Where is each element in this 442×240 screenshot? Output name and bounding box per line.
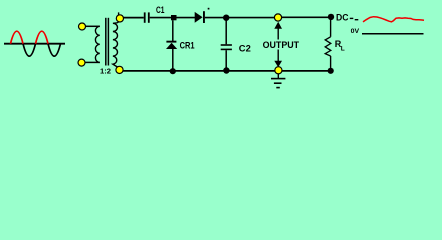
svg-text:C1: C1 [156,5,165,15]
wire RL to bottom rail [330,56,332,70]
wire C2 drop from node B [225,21,227,45]
svg-text:CR1: CR1 [180,40,195,50]
input AC waveform negative half-cycle 1 (black) [23,44,36,56]
transformer T secondary bottom node (yellow) [116,66,123,73]
wire CR1 to bottom rail [172,49,174,71]
input AC waveform axis line [4,43,65,45]
junction dot RL bottom [328,68,334,74]
DC output ripple waveform (red) [363,17,424,22]
svg-text:DC: DC [336,13,349,24]
capacitor C2 bottom plate [221,48,232,50]
ground bar 2 [274,82,282,84]
ground bar 1 [271,78,285,80]
junction node C (dot, DC output) [328,14,334,20]
svg-text:L: L [341,45,345,52]
wire RL drop from node C [330,20,332,37]
0V reference line [362,33,424,35]
wire C2 to bottom rail [225,50,227,70]
OUTPUT node top (yellow) [274,14,281,21]
svg-text:0V: 0V [351,28,360,35]
OUTPUT up arrowhead [274,22,282,29]
bottom rail wire [123,70,331,72]
diode CR2 triangle (series rectifier) [195,12,203,23]
capacitor C2 top plate [221,44,232,46]
DC level dash 1 [350,17,354,19]
transformer T secondary winding [113,12,119,67]
svg-text:1:2: 1:2 [100,67,111,76]
junction dot C2 bottom [223,67,229,73]
svg-text:C2: C2 [239,43,251,53]
stray label dot above diode [208,8,210,10]
capacitor C1 right plate [148,12,150,22]
junction dot CR1 bottom [170,68,176,74]
ground bar 3 [276,87,280,89]
svg-text:OUTPUT: OUTPUT [263,40,300,50]
input AC waveform positive half-cycle 1 (red) [11,31,24,44]
transformer T primary bottom terminal [78,59,85,66]
transformer T secondary top node (yellow) [116,15,123,22]
junction node B (dot) [223,15,229,21]
wire top rail OUTPUT node to node C [278,16,331,18]
OUTPUT upper arrow shaft [277,28,279,40]
input AC waveform negative half-cycle 2 (black) [48,44,61,56]
diode CR1 triangle (points up) [166,43,177,49]
resistor RL zigzag [325,37,331,56]
wire top rail from transformer to C1 [124,17,144,19]
transformer T primary top terminal wire [86,25,100,27]
wire CR1 anode drop from junction A [172,20,174,41]
ground stem [277,74,279,79]
input AC waveform positive half-cycle 2 (red) [36,31,49,44]
transformer T core line right [107,18,109,66]
transformer T primary winding [95,26,99,62]
capacitor C1 left plate [144,12,146,22]
wire top rail diode to node B [205,17,226,19]
DC level dash 2 [355,19,359,21]
wire top rail node B to OUTPUT node [226,17,278,19]
transformer T primary bottom terminal wire [86,61,100,63]
OUTPUT node bottom (yellow) [275,67,282,74]
wire top rail C1 to junction A [150,17,172,19]
junction node A (square) [171,15,177,20]
transformer T primary top terminal [79,23,86,30]
transformer T core line left [105,18,107,66]
OUTPUT lower arrow shaft [277,50,279,62]
diode CR1 cathode bar [166,41,176,43]
OUTPUT down arrowhead [274,61,282,67]
diode CR2 cathode bar [203,11,205,23]
wire top rail junction A to diode [177,17,196,19]
